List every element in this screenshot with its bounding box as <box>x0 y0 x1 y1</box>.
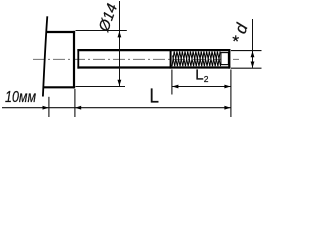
dim line d <box>252 19 254 68</box>
arrow 10mm right-pointing <box>43 106 49 110</box>
thread coil front zigzag <box>172 52 221 67</box>
thread start edge <box>170 49 172 69</box>
thread coil back zigzag <box>173 52 221 67</box>
arrow o14 down <box>118 80 122 86</box>
svg-text:10мм: 10мм <box>5 89 36 106</box>
arrow d up <box>251 51 255 57</box>
ext line o14 top <box>76 30 127 32</box>
shank bottom edge <box>77 66 230 68</box>
dim line L2 <box>172 86 231 88</box>
shank left end edge <box>77 49 79 69</box>
ext line d top <box>231 50 262 52</box>
svg-text:L: L <box>195 67 203 84</box>
thread runout rectangle <box>221 53 229 65</box>
ext line o14 bottom <box>76 86 126 88</box>
ext line head right face <box>74 89 76 117</box>
dim line L and 10mm <box>2 107 231 109</box>
bolt end cap <box>228 49 230 69</box>
ext line L2 left <box>171 70 173 95</box>
ext line right end <box>230 70 232 118</box>
arrow d down <box>251 62 255 68</box>
dim line o14 <box>119 1 121 86</box>
ext line d bottom <box>231 67 262 69</box>
bolt head right edge <box>73 31 75 89</box>
arrow L right <box>224 106 230 110</box>
bolt head left curved face <box>43 16 47 96</box>
arrow L2 right <box>224 85 230 89</box>
bolt head bottom edge <box>44 86 75 88</box>
svg-text:L: L <box>150 86 160 108</box>
ext line 10mm left <box>48 97 50 117</box>
arrow o14 up <box>118 31 122 37</box>
shank top edge <box>77 49 230 51</box>
arrow L2 left <box>172 85 178 89</box>
arrow L left <box>75 106 81 110</box>
bolt head top edge <box>46 31 75 33</box>
svg-text:2: 2 <box>204 74 209 84</box>
centerline <box>33 58 239 60</box>
